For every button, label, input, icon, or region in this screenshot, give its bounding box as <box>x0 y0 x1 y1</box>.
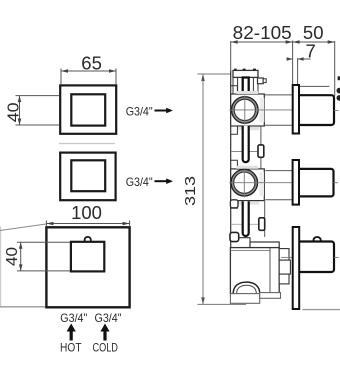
crosshair vertical valve 1 <box>244 96 246 125</box>
cropped view edge line at image left <box>0 227 2 307</box>
check valve cap left <box>230 232 239 241</box>
extension line handle face <box>334 41 336 96</box>
shading right of valve 1 <box>260 98 265 122</box>
step to flange <box>239 238 250 242</box>
housing right edge between valves <box>260 126 262 170</box>
step notch above block 2 <box>231 160 238 170</box>
sleeve lines valve 2 <box>265 170 292 172</box>
valve cartridge circle 1 <box>232 97 258 123</box>
shadow line under plate 1 <box>59 143 115 145</box>
dome arch inner <box>237 285 257 293</box>
dimension 65: dim line <box>61 70 116 72</box>
arrow up cold <box>103 330 106 341</box>
svg-text:313: 313 <box>183 176 199 206</box>
svg-text:65: 65 <box>81 53 102 74</box>
shading below valve 2 <box>238 201 259 204</box>
dimension 40 (top): extension lines <box>16 95 60 97</box>
joint line below valve 2 <box>231 223 259 225</box>
body left edge line <box>230 70 232 293</box>
thermostat flange <box>250 242 279 248</box>
outlet stub right <box>260 293 281 299</box>
shading above valve 2 <box>236 166 258 169</box>
svg-text:7: 7 <box>306 41 316 62</box>
wall plate 1 <box>293 85 299 134</box>
cut-off rotated text at right edge <box>338 76 340 80</box>
svg-text:G3/4": G3/4" <box>95 311 122 325</box>
block seam vertical <box>269 248 271 294</box>
handle 3 (thermostat, side) <box>297 242 334 273</box>
big square handle inner <box>71 242 104 272</box>
dimension 100: extension lines <box>45 221 47 227</box>
grey base line bottom-right <box>302 309 340 311</box>
cartridge interface rects <box>279 249 289 261</box>
square handle 2 inner <box>71 160 105 191</box>
clip below valve 2 <box>259 218 265 231</box>
pipe segment 2 (valve 1 to valve 2) <box>243 126 249 162</box>
step notch below block 1 <box>231 126 238 134</box>
mounting bracket top <box>233 70 258 77</box>
svg-text:G3/4": G3/4" <box>126 175 153 189</box>
square plate 1 outer (65mm trim) <box>60 85 116 133</box>
wall plate 3 <box>293 227 300 309</box>
dimension 40 (bottom): dim line <box>20 242 22 271</box>
svg-text:HOT: HOT <box>60 342 82 354</box>
thermostat knob on handle top <box>85 237 91 242</box>
shading below valve 1 <box>238 127 259 130</box>
square plate 2 outer <box>60 153 115 201</box>
base rect under dome <box>230 294 259 304</box>
dimension 100: dim line <box>46 223 129 225</box>
dimension 40 (top): dim line <box>19 96 21 125</box>
dimension 313: extension lines <box>198 73 231 75</box>
valve block 2 <box>231 169 265 201</box>
handle 1 (top, side) <box>296 95 334 125</box>
centerline right of handle 1 <box>334 109 339 111</box>
crosshair vertical valve 2 <box>243 170 245 198</box>
arrow right G3/4 inlet 1 <box>155 110 168 112</box>
dimension 313: dim line <box>202 74 204 304</box>
dimension 7: leader line and arrows <box>288 58 292 60</box>
arrow up hot <box>70 330 73 341</box>
valve block 1 <box>231 94 265 126</box>
crosshair horizontal thermostat <box>281 256 293 258</box>
centerline right of handle 3 <box>334 256 339 258</box>
handle 2 (middle, side) <box>296 169 334 197</box>
housing right edge below valve 2 <box>264 201 266 237</box>
dimension 40 (bottom): extension lines <box>17 241 70 243</box>
arrow right G3/4 inlet 2 <box>155 180 168 182</box>
leader line from left edge to 100-dim line <box>0 224 46 231</box>
svg-text:G3/4": G3/4" <box>126 104 153 118</box>
dimension 40 (bottom): arrowheads <box>19 242 23 249</box>
bracket screws <box>234 69 236 71</box>
extension line left (body) <box>230 41 232 70</box>
thermostat main block <box>230 248 279 294</box>
svg-text:40: 40 <box>5 102 22 122</box>
crosshair horizontal valve 1 <box>229 109 292 111</box>
valve cartridge circle 2 <box>231 170 257 196</box>
svg-text:82-105: 82-105 <box>233 22 292 43</box>
step notch above block 1 <box>231 86 238 94</box>
shading above valve 1 <box>236 91 258 94</box>
big square plate (100mm) <box>46 227 129 307</box>
dome arch outer <box>233 282 259 293</box>
dimension 65: extension lines <box>60 69 62 85</box>
clip between valves <box>258 145 264 157</box>
joint line between valves <box>231 151 261 153</box>
dim arrowheads at 230.7 / 292.6 / 334.7 <box>231 40 238 44</box>
extension line wall face <box>292 41 294 85</box>
dimension 82-105/50: dim line <box>231 41 335 43</box>
svg-text:40: 40 <box>4 247 21 266</box>
dimension 40 (top): arrowheads <box>18 96 22 103</box>
extension line plate back <box>297 58 299 85</box>
pipe segment 1 (bracket to valve 1) <box>243 78 249 94</box>
svg-text:G3/4": G3/4" <box>60 311 87 325</box>
dimension 100: arrowheads <box>46 222 53 226</box>
pipe segment 3 (valve 2 to thermostat, rounded bottom) <box>243 201 249 236</box>
sleeve lines valve 1 <box>265 94 293 96</box>
block seam horizontal <box>230 250 270 252</box>
svg-text:COLD: COLD <box>92 342 118 354</box>
thermostat handle bump <box>314 237 321 242</box>
dimension 65: arrowheads <box>61 69 68 73</box>
grey base line bottom-left <box>0 306 46 308</box>
wall plate 2 <box>293 160 299 205</box>
step notch below block 2 <box>231 201 238 208</box>
centerline right of handle 2 <box>334 182 339 184</box>
lug top-left below valve 2 <box>230 200 238 208</box>
crosshair horizontal valve 2 <box>229 182 292 184</box>
escutcheon top line valve 1 <box>299 85 329 87</box>
shading right of valve 2 <box>260 172 265 196</box>
svg-text:100: 100 <box>71 202 102 223</box>
square handle 1 inner <box>71 94 105 125</box>
small tab right of bracket <box>258 78 264 84</box>
